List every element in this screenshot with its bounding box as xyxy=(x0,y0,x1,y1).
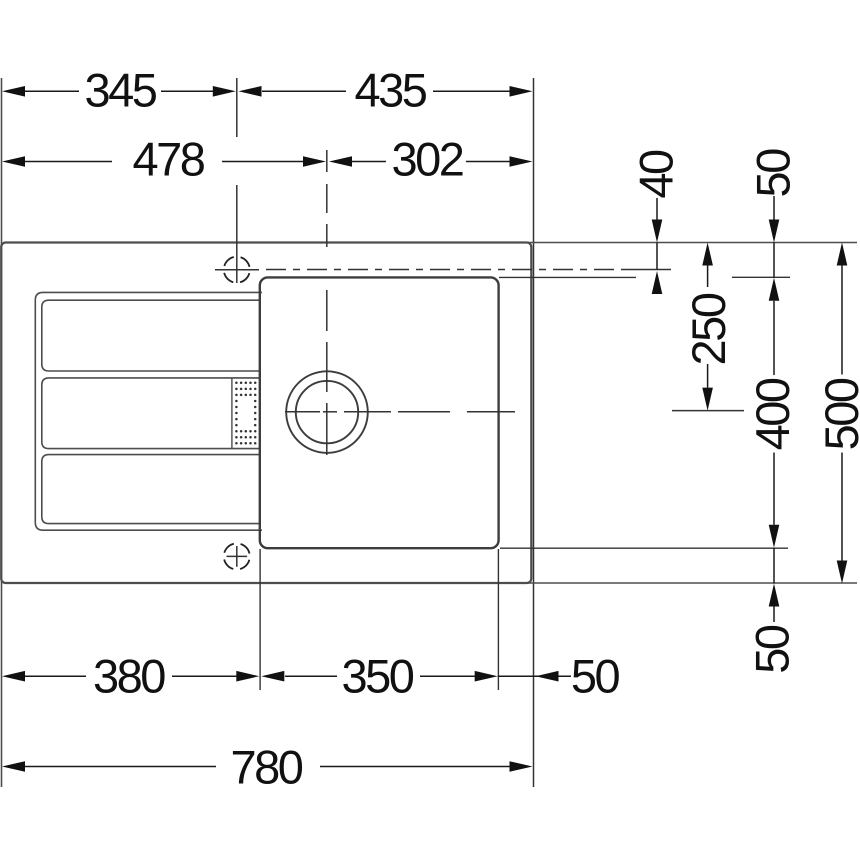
sink outer rim xyxy=(1,243,531,584)
svg-text:478: 478 xyxy=(133,132,205,185)
dimension row 380/350/50 xyxy=(24,675,571,677)
drainer slot 3 xyxy=(42,455,260,524)
svg-text:50: 50 xyxy=(746,625,799,674)
dimension 50 top right xyxy=(773,196,775,220)
dimension 250 vertical xyxy=(702,243,713,266)
dimension row 478/302 xyxy=(24,161,510,163)
drain outer circle xyxy=(286,371,368,453)
svg-text:350: 350 xyxy=(342,650,414,703)
extension top edge horizontal xyxy=(528,242,857,244)
dimension 500 vertical xyxy=(837,243,848,266)
dimension 50 bottom right xyxy=(769,584,780,607)
extension tap vertical dashed xyxy=(236,78,238,137)
svg-text:250: 250 xyxy=(682,293,735,365)
bowl xyxy=(260,277,499,548)
tap hole top crosshair horizontal xyxy=(215,269,259,271)
svg-text:780: 780 xyxy=(231,740,303,793)
dotted grid divider line xyxy=(231,379,233,449)
dimension row 780 xyxy=(24,766,510,768)
extension bottom edge horizontal xyxy=(528,582,857,584)
dimension 40 vertical xyxy=(656,198,658,220)
drainer outline xyxy=(35,292,262,530)
centerline drain horizontal xyxy=(285,411,744,412)
svg-text:50: 50 xyxy=(571,650,620,703)
extension bowl-left vertical xyxy=(259,549,261,690)
drainer slot 1 xyxy=(42,300,260,371)
svg-text:40: 40 xyxy=(629,150,682,199)
centerline drain vertical xyxy=(326,150,328,455)
svg-text:435: 435 xyxy=(355,63,427,116)
tap hole top xyxy=(224,257,250,283)
svg-text:345: 345 xyxy=(85,63,157,116)
drain inner circle xyxy=(296,381,358,443)
dotted grid pattern xyxy=(235,382,256,445)
svg-text:400: 400 xyxy=(746,378,799,450)
svg-text:380: 380 xyxy=(93,650,165,703)
extension bowl bottom horizontal xyxy=(500,547,788,549)
tap hole bottom crosshair xyxy=(227,555,248,557)
extension line left vertical xyxy=(1,78,3,787)
extension line right vertical xyxy=(533,78,535,787)
svg-text:500: 500 xyxy=(815,378,860,450)
drainer slot 2 xyxy=(42,378,260,449)
tap hole bottom xyxy=(224,543,250,569)
dimension row 345/435 xyxy=(24,90,510,92)
dimension 400 vertical xyxy=(769,278,780,301)
svg-text:50: 50 xyxy=(746,149,799,198)
svg-text:302: 302 xyxy=(392,132,463,185)
centerline tap horizontal xyxy=(266,269,618,271)
extension bowl top horizontal xyxy=(499,276,636,278)
extension bowl-right vertical xyxy=(497,549,499,690)
